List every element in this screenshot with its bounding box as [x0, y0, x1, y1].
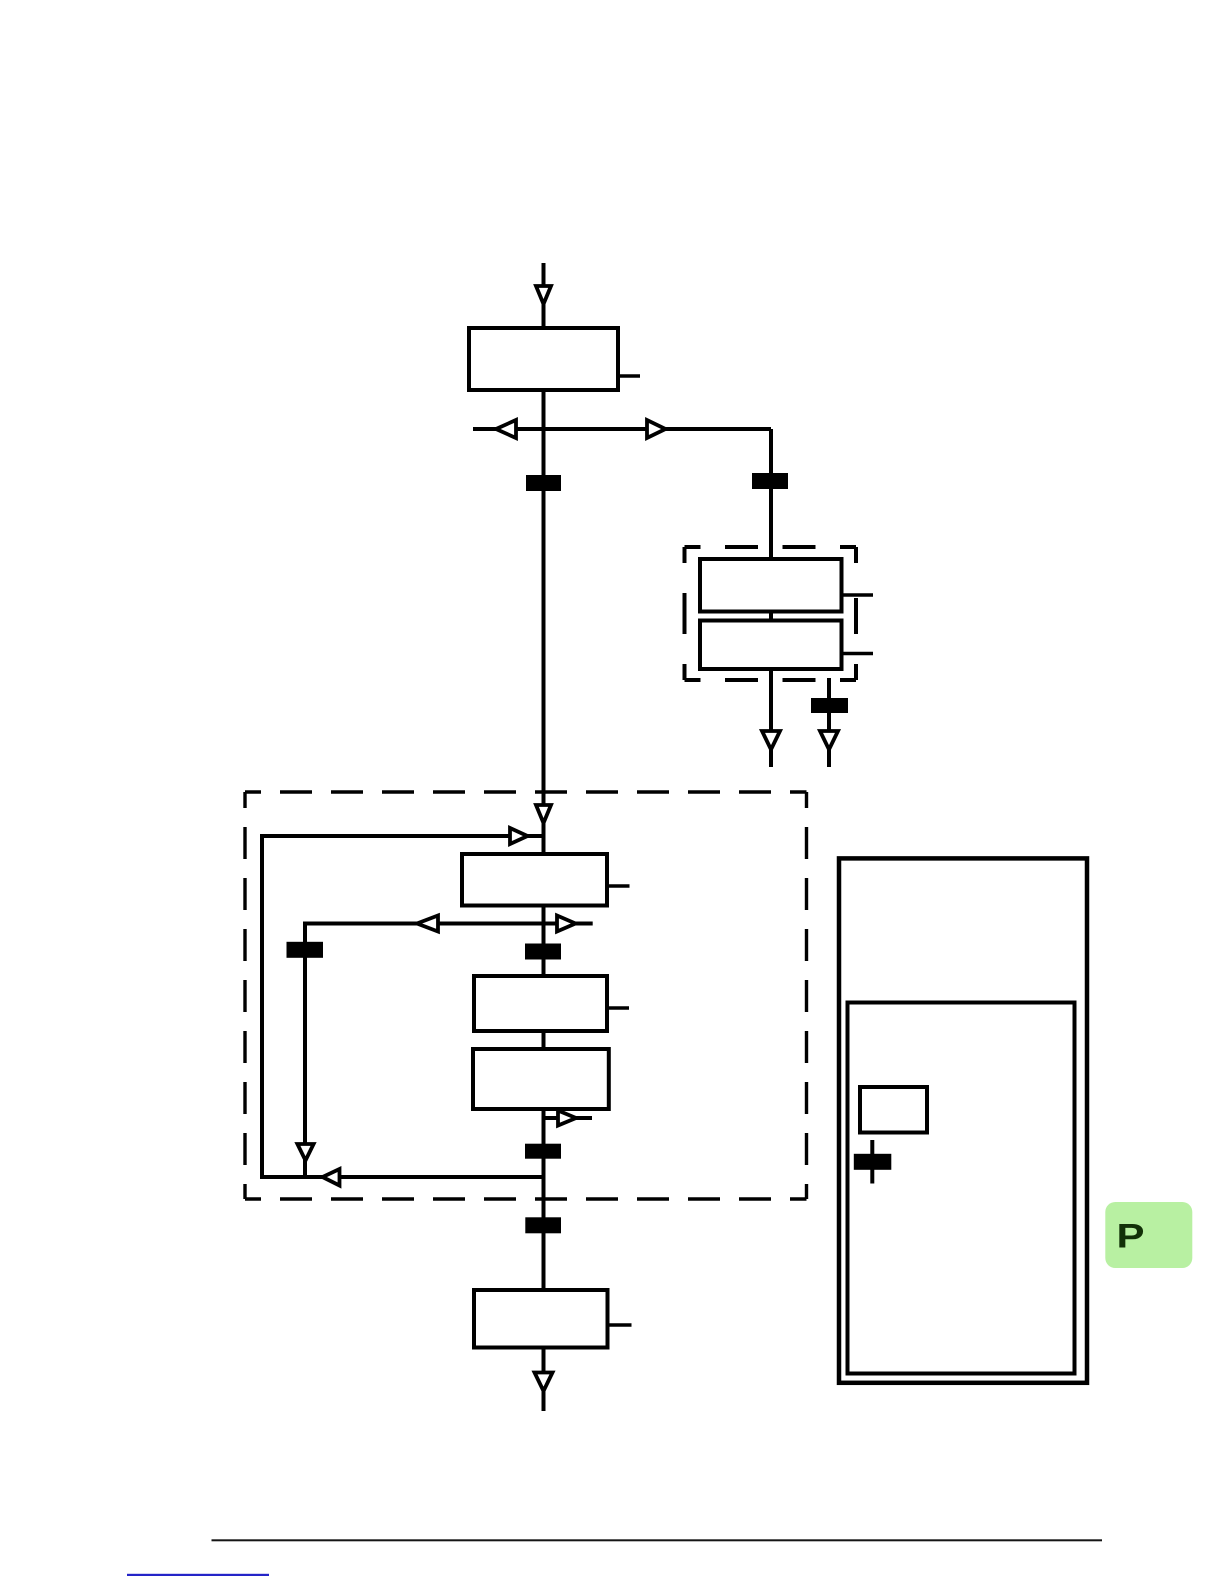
arrowhead jump below S5: [558, 1111, 576, 1126]
green key button P: [1105, 1202, 1192, 1268]
dashed loop box left: [243, 792, 246, 1199]
dashed group box right: [854, 547, 858, 680]
wire left sub-branch vertical: [303, 922, 307, 1178]
wire branch output left: [769, 669, 773, 767]
dashed group box top: [685, 545, 857, 549]
wire branch output right: [827, 678, 831, 767]
arrowhead branch right: [647, 420, 666, 438]
arrowhead branch left: [496, 420, 516, 438]
arrowhead branch output right: [820, 731, 838, 750]
action tick S3: [607, 884, 630, 888]
footer rule: [212, 1539, 1103, 1541]
arrowhead branch output left: [762, 731, 780, 750]
step S2b box: [700, 621, 842, 670]
dashed loop box top: [245, 790, 807, 793]
action tick S4: [607, 1006, 629, 1010]
step S6 box: [474, 1290, 608, 1348]
action tick S2b: [842, 652, 874, 656]
action tick S2a: [842, 593, 874, 597]
footer link underline: [127, 1574, 269, 1576]
wire entry top: [542, 263, 546, 328]
step S3 box: [462, 854, 607, 906]
panel inner frame: [848, 1003, 1075, 1374]
wire jump arrow below S5: [544, 1116, 593, 1120]
arrowhead entry top: [536, 286, 551, 304]
dashed loop box right: [805, 792, 808, 1199]
step S5 box: [473, 1049, 609, 1109]
transition T1: [526, 475, 561, 491]
step S4 box: [474, 976, 607, 1031]
transition T6: [525, 1144, 561, 1159]
dashed group box left: [683, 547, 687, 680]
panel small step box: [860, 1087, 927, 1133]
panel transition bar: [854, 1154, 892, 1170]
wire right branch vertical: [769, 429, 773, 559]
wire main vertical trunk: [542, 390, 546, 1290]
wire selection branch horizontal: [473, 427, 771, 431]
wire S2a to S2b: [769, 612, 773, 621]
arrowhead into loop block: [536, 805, 551, 823]
arrowhead inner branch right: [557, 916, 576, 932]
wire inner branch horizontal: [305, 922, 593, 926]
transition T3: [811, 698, 848, 713]
transition T2: [752, 473, 788, 489]
arrowhead exit bottom: [535, 1373, 553, 1392]
step S1 box: [469, 328, 618, 390]
arrowhead loop top: [510, 828, 528, 844]
dashed group box bottom: [685, 678, 857, 682]
wire loop top horizontal: [260, 834, 544, 838]
action tick S1: [618, 374, 640, 378]
dashed loop box bottom: [245, 1197, 807, 1200]
arrowhead inner branch left: [417, 916, 438, 932]
wire loop bottom horizontal: [262, 1175, 544, 1179]
transition T7: [525, 1217, 561, 1233]
step S2a box: [700, 559, 842, 612]
svg-text:P: P: [1117, 1218, 1145, 1256]
arrowhead left sub-branch: [297, 1144, 313, 1161]
action tick S6: [608, 1323, 632, 1327]
panel outer frame: [839, 858, 1087, 1382]
transition T5: [525, 944, 561, 960]
transition T4: [287, 942, 324, 958]
arrowhead loop bottom: [323, 1169, 340, 1186]
wire loop left vertical: [260, 834, 264, 1179]
wire exit bottom: [542, 1348, 546, 1412]
panel transition wire: [870, 1140, 874, 1184]
